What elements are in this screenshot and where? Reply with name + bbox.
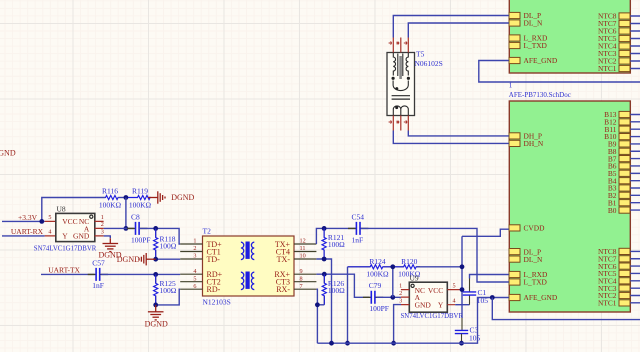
wire C79 to U9 A bbox=[377, 296, 401, 298]
junction rail junction U9 GND bbox=[391, 341, 396, 346]
sheet entry B7 bbox=[608, 154, 630, 163]
sheet entry NTC3 bbox=[598, 284, 630, 293]
sheet entry L_RXD bbox=[509, 270, 548, 279]
junction R118 bottom junction bbox=[153, 257, 158, 262]
svg-text:105: 105 bbox=[469, 334, 481, 343]
svg-text:DH_N: DH_N bbox=[524, 139, 544, 148]
svg-text:C54: C54 bbox=[352, 213, 365, 222]
wire A riser to R124/R120 bbox=[392, 267, 394, 298]
svg-text:1: 1 bbox=[193, 238, 196, 245]
svg-text:100KΩ: 100KΩ bbox=[129, 201, 152, 210]
svg-text:DGND: DGND bbox=[0, 148, 16, 157]
sheet entry NTC1 bbox=[598, 299, 630, 308]
sheet symbol AFE-PB7130 (top) bbox=[509, 0, 630, 73]
svg-text:10: 10 bbox=[300, 253, 306, 260]
svg-text:GND: GND bbox=[73, 232, 90, 241]
svg-text:2: 2 bbox=[399, 290, 402, 297]
svg-text:DGND: DGND bbox=[171, 193, 194, 202]
wire U8 GND to ground bbox=[104, 236, 111, 238]
svg-text:VCC: VCC bbox=[62, 217, 77, 226]
wire TX- row down to rail bbox=[316, 259, 331, 343]
svg-text:TD-: TD- bbox=[207, 255, 221, 264]
T2 pins bbox=[180, 244, 316, 289]
svg-text:7: 7 bbox=[300, 283, 303, 290]
svg-text:1: 1 bbox=[399, 282, 402, 289]
sheet entry NTC6 bbox=[598, 262, 630, 271]
svg-text:2: 2 bbox=[101, 221, 104, 228]
wire C8 to R118 junction bbox=[139, 227, 156, 229]
op-amp buffer U8 SN74LVC1G17DBVR bbox=[56, 213, 95, 241]
svg-text:R120: R120 bbox=[401, 257, 418, 266]
svg-text:4: 4 bbox=[453, 298, 456, 305]
sheet entry B5 bbox=[608, 169, 630, 178]
U9 pins bbox=[401, 290, 461, 305]
junction +3.3V junction bbox=[39, 219, 44, 224]
svg-text:9: 9 bbox=[300, 268, 303, 275]
svg-text:100Ω: 100Ω bbox=[160, 286, 177, 295]
resistor R120 100K&#937; bbox=[393, 257, 421, 278]
junction R116/R119 junction bbox=[124, 195, 129, 200]
wire R124 left down to rail bbox=[347, 267, 349, 343]
svg-text:L_TXD: L_TXD bbox=[524, 278, 548, 287]
svg-text:3: 3 bbox=[193, 253, 196, 260]
sheet entry NTC4 bbox=[598, 277, 630, 286]
wire AFE_GND top block loop bbox=[479, 61, 640, 83]
junction rail junction C3 bbox=[459, 341, 464, 346]
wire T5 pin1 to DL_P bbox=[393, 16, 509, 38]
svg-text:U9: U9 bbox=[410, 273, 419, 282]
svg-text:4: 4 bbox=[193, 268, 196, 275]
sheet entry NTC8 bbox=[598, 247, 630, 256]
svg-text:R119: R119 bbox=[132, 186, 148, 195]
wire +3.3V to U8 pin5 bbox=[2, 220, 45, 222]
svg-text:11: 11 bbox=[300, 245, 306, 252]
svg-text:Y: Y bbox=[438, 300, 444, 309]
sheet entry DL_P bbox=[509, 11, 541, 20]
svg-text:100KΩ: 100KΩ bbox=[99, 201, 122, 210]
junction R121 top junction bbox=[322, 226, 327, 231]
junction RX+/R126 junction bbox=[322, 272, 327, 277]
junction R124/R120 junction bbox=[390, 264, 395, 269]
sheet entry AFE_GND bbox=[509, 293, 558, 302]
sheet symbol AFE-PB7130 (bottom) bbox=[509, 101, 630, 312]
svg-text:GND: GND bbox=[415, 300, 432, 309]
svg-text:R116: R116 bbox=[102, 186, 118, 195]
svg-text:100KΩ: 100KΩ bbox=[366, 269, 389, 278]
ground DGND right of R119 bbox=[148, 191, 165, 203]
svg-text:B0: B0 bbox=[608, 206, 617, 215]
svg-text:RD-: RD- bbox=[207, 285, 221, 294]
svg-text:1: 1 bbox=[101, 214, 104, 221]
svg-text:AFE_GND: AFE_GND bbox=[524, 56, 558, 65]
ground DGND below R125 bbox=[148, 305, 164, 320]
sheet entry B0 bbox=[608, 206, 630, 215]
sheet entry B11 bbox=[604, 125, 630, 134]
junction rail junction R124 bbox=[345, 341, 350, 346]
junction R125 bottom junction bbox=[153, 303, 158, 308]
wire U8 A to C8 bbox=[104, 227, 134, 229]
svg-text:NTC1: NTC1 bbox=[598, 64, 617, 73]
svg-text:SN74LVC1G17DBVR: SN74LVC1G17DBVR bbox=[401, 312, 464, 320]
resistor R118 100&#937; bbox=[154, 228, 177, 259]
capacitor C3 105 bbox=[455, 325, 481, 342]
sheet entry B8 bbox=[608, 147, 630, 156]
svg-text:T2: T2 bbox=[203, 226, 212, 235]
wire T5 pin6 to DH_N bbox=[393, 131, 509, 144]
wire C57 to T2 RD+ bbox=[101, 273, 180, 275]
junction rail junction TX- bbox=[329, 341, 334, 346]
sheet entry NTC6 bbox=[598, 27, 630, 36]
svg-text:RX-: RX- bbox=[276, 285, 290, 294]
wire RX+ row to C79 bbox=[316, 274, 369, 297]
svg-text:C79: C79 bbox=[369, 281, 382, 290]
transformer T5 pins bbox=[393, 38, 408, 131]
sheet entry B9 bbox=[608, 140, 630, 149]
transformer T2 N12103S bbox=[203, 236, 295, 296]
svg-text:DL_N: DL_N bbox=[524, 255, 544, 264]
sheet entry NTC2 bbox=[598, 57, 630, 66]
wire RX- down to rail bbox=[316, 289, 317, 343]
sheet entry DL_N bbox=[509, 19, 543, 28]
wire +3.3V riser to R116 bbox=[42, 198, 105, 222]
wire A net to T2 TD+ bbox=[156, 228, 181, 244]
sheet entry B3 bbox=[608, 184, 630, 193]
sheet entry B6 bbox=[608, 162, 630, 171]
sheet entry NTC1 bbox=[598, 64, 630, 73]
sheet entry B2 bbox=[608, 191, 630, 200]
resistor R119 100K&#937; bbox=[127, 186, 152, 209]
svg-text:R124: R124 bbox=[369, 257, 386, 266]
sheet entry NTC5 bbox=[598, 34, 630, 43]
svg-text:DGND: DGND bbox=[145, 320, 168, 329]
resistor R124 100K&#937; bbox=[348, 257, 393, 278]
op-amp buffer U9 SN74LVC1G17DBVR bbox=[409, 282, 447, 312]
wire U9 GND down to rail bbox=[394, 305, 401, 344]
svg-text:100PF: 100PF bbox=[369, 304, 389, 313]
sheet entry L_TXD bbox=[509, 41, 548, 50]
svg-text:1nF: 1nF bbox=[352, 236, 364, 245]
sheet entry NTC2 bbox=[598, 291, 630, 300]
capacitor C57 1nF bbox=[88, 259, 108, 291]
wire R116-R119 link bbox=[119, 197, 127, 199]
svg-text:5: 5 bbox=[453, 282, 456, 289]
wires NTC1..NTC8 (bottom block) to sheet edge bbox=[630, 251, 640, 302]
wire T2 TX+ up to C54 row bbox=[316, 228, 355, 244]
svg-text:VCC: VCC bbox=[428, 286, 443, 295]
sheet entry B1 bbox=[608, 198, 630, 207]
svg-text:5: 5 bbox=[48, 214, 51, 221]
svg-text:2: 2 bbox=[193, 245, 196, 252]
svg-text:100Ω: 100Ω bbox=[328, 286, 345, 295]
U8 pins bbox=[45, 221, 104, 236]
svg-text:4: 4 bbox=[48, 229, 51, 236]
junction RX-/R126 junction bbox=[315, 302, 320, 307]
sheet entry DH_P bbox=[509, 132, 542, 141]
svg-text:C57: C57 bbox=[92, 259, 105, 268]
junction TX-/R121 junction bbox=[322, 257, 327, 262]
wire C3 top lead bbox=[461, 318, 463, 330]
svg-text:Y: Y bbox=[62, 232, 68, 241]
wire R126 bottom link bbox=[317, 304, 324, 306]
capacitor C1 105 bbox=[463, 288, 488, 305]
junction A-net junction at C8 bbox=[124, 226, 129, 231]
junction VCC/R120 junction bbox=[460, 264, 465, 269]
svg-text:T5: T5 bbox=[416, 50, 425, 59]
svg-text:3: 3 bbox=[399, 297, 402, 304]
svg-text:N06102S: N06102S bbox=[415, 59, 443, 68]
wire AFE_GND to sheet edge bbox=[492, 298, 640, 320]
sheet entry NTC7 bbox=[598, 254, 630, 263]
wire VCC net vertical bbox=[461, 236, 463, 318]
wire R125 bottom to T2 RD- bbox=[156, 289, 181, 305]
svg-text:DL_N: DL_N bbox=[524, 19, 544, 28]
transformer T5 N06102S bbox=[387, 53, 415, 116]
svg-text:U8: U8 bbox=[57, 205, 66, 214]
capacitor C3 bottom lead bbox=[461, 334, 463, 343]
svg-text:UART-RX: UART-RX bbox=[11, 227, 44, 236]
svg-text:AFE-PB7130.SchDoc: AFE-PB7130.SchDoc bbox=[509, 91, 571, 99]
svg-text:AFE_GND: AFE_GND bbox=[524, 293, 558, 302]
sheet entry DH_N bbox=[509, 139, 544, 148]
sheet entry NTC3 bbox=[598, 49, 630, 58]
svg-text:N12103S: N12103S bbox=[203, 298, 231, 307]
wire AFE_GND rail bbox=[317, 298, 508, 344]
junction C8/R118 junction bbox=[153, 226, 158, 231]
resistor R116 100K&#937; bbox=[99, 186, 122, 209]
sheet entry NTC4 bbox=[598, 42, 630, 51]
sheet entry DL_P bbox=[509, 247, 541, 256]
svg-text:+3.3V: +3.3V bbox=[18, 213, 38, 222]
sheet entry NTC7 bbox=[598, 19, 630, 28]
svg-text:DGND: DGND bbox=[117, 255, 140, 264]
wire R118 bottom row to T2 TD- bbox=[156, 258, 181, 260]
sheet entry AFE_GND bbox=[509, 56, 558, 65]
capacitor C8 100PF bbox=[127, 213, 150, 245]
wire UART-RX to U8 pin4 bbox=[2, 235, 45, 237]
resistor R126 100&#937; bbox=[322, 274, 345, 305]
sheet entry NTC8 bbox=[598, 12, 630, 21]
wires B0..B13 (bottom block) to sheet edge bbox=[630, 115, 640, 211]
sheet entry NTC5 bbox=[598, 269, 630, 278]
sheet entry B12 bbox=[604, 118, 630, 127]
wire T5 pin4 to DH_P bbox=[408, 131, 509, 136]
wire U9 Y to C1 bbox=[455, 304, 469, 306]
svg-text:12: 12 bbox=[300, 238, 306, 245]
transformer T5 pin numbers bbox=[389, 41, 407, 123]
svg-text:L_TXD: L_TXD bbox=[524, 41, 548, 50]
junction AFE_GND junction bbox=[490, 295, 495, 300]
wires NTC1..NTC8 (top block) to sheet edge bbox=[630, 16, 640, 69]
svg-text:TX-: TX- bbox=[277, 255, 291, 264]
svg-text:SN74LVC1G17DBVR: SN74LVC1G17DBVR bbox=[34, 244, 97, 252]
svg-text:NTC1: NTC1 bbox=[598, 299, 617, 308]
svg-text:8: 8 bbox=[300, 275, 303, 282]
sheet entry B10 bbox=[604, 132, 630, 141]
sheet entry L_RXD bbox=[509, 34, 548, 43]
sheet entry CVDD bbox=[509, 224, 545, 233]
wire C54 to L_TXD bbox=[361, 228, 509, 282]
resistor R121 100&#937; bbox=[322, 228, 345, 259]
svg-text:CVDD: CVDD bbox=[524, 224, 546, 233]
resistor R125 100&#937; bbox=[154, 274, 177, 305]
junction VCC/U9 pin5 junction bbox=[460, 287, 465, 292]
svg-text:3: 3 bbox=[101, 229, 104, 236]
ground DGND sideways at R118 bbox=[139, 253, 156, 265]
sheet entry L_TXD bbox=[509, 278, 548, 287]
wire junction to A net bbox=[125, 198, 127, 229]
sheet entry DL_N bbox=[509, 255, 543, 264]
svg-text:UART-TX: UART-TX bbox=[48, 266, 80, 275]
svg-text:C8: C8 bbox=[131, 213, 140, 222]
wire VCC to CVDD bbox=[462, 229, 509, 236]
svg-text:100Ω: 100Ω bbox=[328, 240, 345, 249]
wire R120 to VCC net bbox=[418, 266, 463, 268]
wire C1 to L_RXD bbox=[470, 275, 509, 279]
wire UART-TX to C57 bbox=[41, 273, 95, 275]
svg-text:100PF: 100PF bbox=[131, 236, 151, 245]
capacitor C54 1nF bbox=[348, 213, 368, 245]
svg-text:1nF: 1nF bbox=[92, 281, 104, 290]
junction RD+ junction bbox=[153, 272, 158, 277]
sheet entry B13 bbox=[604, 110, 630, 119]
capacitor C79 100PF bbox=[363, 281, 389, 313]
junction U9 A junction bbox=[390, 295, 395, 300]
wire T5 pin3 to DL_N bbox=[408, 23, 509, 38]
svg-text:100Ω: 100Ω bbox=[160, 241, 177, 250]
svg-text:5: 5 bbox=[193, 275, 196, 282]
sheet entry B4 bbox=[608, 176, 630, 185]
ground DGND below U8 bbox=[103, 238, 119, 251]
svg-text:6: 6 bbox=[193, 283, 196, 290]
capacitor C1 leads bbox=[469, 279, 471, 305]
